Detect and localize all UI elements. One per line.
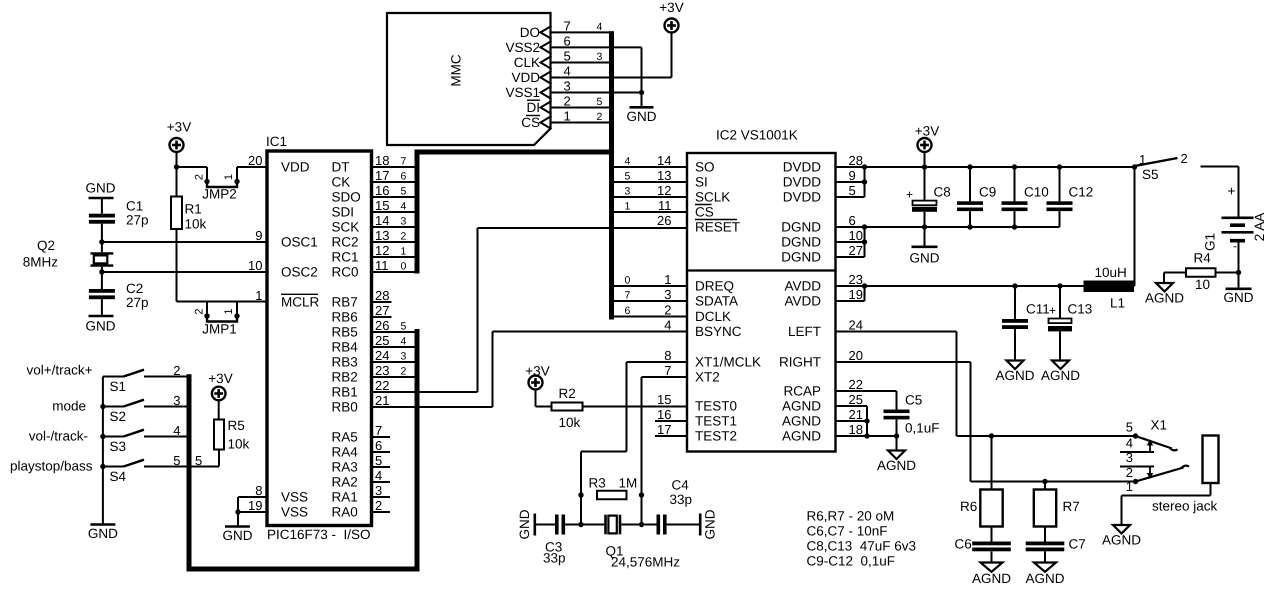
- svg-text:RC1: RC1: [332, 250, 359, 265]
- svg-text:23: 23: [375, 363, 389, 378]
- svg-text:AGND: AGND: [995, 368, 1034, 383]
- svg-text:25: 25: [375, 333, 389, 348]
- svg-text:14: 14: [657, 153, 671, 168]
- svg-text:SDI: SDI: [332, 205, 355, 220]
- svg-text:RA1: RA1: [332, 490, 358, 505]
- svg-text:VDD: VDD: [511, 70, 540, 85]
- svg-text:1: 1: [625, 201, 631, 213]
- svg-text:9: 9: [255, 228, 262, 243]
- svg-text:9: 9: [849, 168, 856, 183]
- svg-text:12: 12: [657, 183, 671, 198]
- svg-text:C9: C9: [979, 185, 996, 200]
- svg-text:8: 8: [255, 483, 262, 498]
- svg-text:C7: C7: [1069, 537, 1086, 552]
- svg-text:R5: R5: [228, 418, 245, 433]
- svg-text:5: 5: [1126, 420, 1133, 435]
- svg-text:6: 6: [849, 213, 856, 228]
- svg-text:JMP1: JMP1: [202, 322, 237, 337]
- svg-text:OSC1: OSC1: [281, 235, 318, 250]
- svg-text:5: 5: [375, 453, 382, 468]
- svg-text:GND: GND: [703, 509, 718, 539]
- svg-text:5: 5: [597, 96, 603, 108]
- svg-text:vol-/track-: vol-/track-: [29, 429, 88, 444]
- svg-text:26: 26: [657, 213, 671, 228]
- svg-text:1: 1: [1139, 152, 1146, 167]
- svg-text:AGND: AGND: [782, 414, 821, 429]
- svg-text:1M: 1M: [619, 476, 638, 491]
- svg-text:playstop/bass: playstop/bass: [10, 459, 93, 474]
- svg-text:2: 2: [173, 363, 180, 378]
- svg-text:DCLK: DCLK: [695, 309, 731, 324]
- svg-text:+3V: +3V: [915, 124, 939, 139]
- svg-text:RB4: RB4: [332, 340, 359, 355]
- svg-text:AVDD: AVDD: [784, 294, 821, 309]
- svg-text:8MHz: 8MHz: [23, 255, 59, 270]
- svg-text:R2: R2: [559, 386, 576, 401]
- svg-text:C4: C4: [672, 478, 690, 493]
- svg-text:IC1: IC1: [266, 134, 287, 149]
- svg-text:RA4: RA4: [332, 445, 359, 460]
- svg-text:RA2: RA2: [332, 475, 358, 490]
- svg-text:1: 1: [223, 308, 235, 314]
- svg-text:27p: 27p: [126, 295, 149, 310]
- svg-text:3: 3: [401, 351, 407, 363]
- svg-text:CS: CS: [521, 115, 540, 130]
- svg-text:5: 5: [625, 171, 631, 183]
- svg-text:23: 23: [849, 272, 863, 287]
- svg-text:AGND: AGND: [1025, 571, 1064, 586]
- svg-text:R7: R7: [1063, 499, 1080, 514]
- svg-text:AGND: AGND: [1102, 533, 1141, 548]
- svg-text:28: 28: [375, 288, 389, 303]
- svg-text:VSS1: VSS1: [505, 85, 540, 100]
- svg-text:12: 12: [375, 243, 389, 258]
- svg-text:10k: 10k: [185, 217, 207, 232]
- svg-text:2 AA: 2 AA: [1252, 213, 1267, 242]
- svg-text:Q2: Q2: [37, 238, 55, 253]
- svg-text:GND: GND: [910, 251, 940, 266]
- svg-text:RA3: RA3: [332, 460, 358, 475]
- svg-text:R3: R3: [589, 476, 606, 491]
- svg-text:DVDD: DVDD: [783, 190, 822, 205]
- svg-text:0,1uF: 0,1uF: [905, 421, 940, 436]
- svg-text:3: 3: [597, 51, 603, 63]
- svg-text:RB0: RB0: [332, 400, 358, 415]
- svg-text:IC2 VS1001K: IC2 VS1001K: [716, 128, 798, 143]
- svg-text:JMP2: JMP2: [202, 187, 237, 202]
- svg-text:3: 3: [375, 483, 382, 498]
- svg-text:C6,C7 - 10nF: C6,C7 - 10nF: [807, 524, 888, 539]
- svg-text:SCK: SCK: [332, 220, 360, 235]
- svg-text:-: -: [1233, 239, 1237, 253]
- svg-text:5: 5: [849, 183, 856, 198]
- svg-text:SDATA: SDATA: [695, 294, 738, 309]
- svg-text:24: 24: [849, 317, 863, 332]
- svg-text:DO: DO: [520, 25, 540, 40]
- svg-text:RB7: RB7: [332, 295, 358, 310]
- svg-text:DT: DT: [332, 160, 350, 175]
- svg-text:3: 3: [401, 216, 407, 228]
- svg-text:X1: X1: [1151, 418, 1168, 433]
- svg-text:GND: GND: [88, 526, 118, 541]
- svg-text:5: 5: [173, 453, 180, 468]
- svg-text:4: 4: [375, 468, 382, 483]
- svg-text:DVDD: DVDD: [783, 175, 822, 190]
- svg-text:R6,R7 - 20 oM: R6,R7 - 20 oM: [807, 509, 895, 524]
- svg-text:+3V: +3V: [525, 364, 549, 379]
- svg-text:LEFT: LEFT: [788, 324, 821, 339]
- svg-text:+: +: [906, 188, 913, 202]
- svg-text:4: 4: [173, 423, 180, 438]
- svg-text:+3V: +3V: [167, 120, 191, 135]
- svg-text:SI: SI: [695, 175, 708, 190]
- svg-text:G1: G1: [1203, 233, 1218, 251]
- svg-text:S3: S3: [110, 439, 127, 454]
- svg-text:0: 0: [401, 261, 407, 273]
- svg-text:C6: C6: [955, 537, 972, 552]
- svg-text:XT1/MCLK: XT1/MCLK: [695, 355, 761, 370]
- svg-text:AGND: AGND: [1041, 368, 1080, 383]
- svg-text:5: 5: [564, 49, 571, 64]
- svg-text:TEST1: TEST1: [695, 414, 737, 429]
- svg-text:MCLR: MCLR: [281, 295, 320, 310]
- svg-text:4: 4: [597, 21, 603, 33]
- svg-text:15: 15: [375, 198, 389, 213]
- svg-text:2: 2: [401, 231, 407, 243]
- svg-text:21: 21: [375, 393, 389, 408]
- svg-text:TEST0: TEST0: [695, 399, 737, 414]
- svg-text:24,576MHz: 24,576MHz: [611, 555, 680, 570]
- svg-text:VDD: VDD: [281, 160, 310, 175]
- svg-text:RESET: RESET: [695, 220, 740, 235]
- svg-text:+3V: +3V: [659, 0, 683, 15]
- svg-text:8: 8: [664, 348, 671, 363]
- svg-text:1: 1: [1126, 479, 1133, 494]
- svg-text:RB5: RB5: [332, 325, 358, 340]
- svg-text:4: 4: [401, 201, 407, 213]
- svg-text:6: 6: [625, 305, 631, 317]
- svg-text:24: 24: [375, 348, 389, 363]
- svg-text:14: 14: [375, 213, 389, 228]
- svg-text:20: 20: [849, 348, 863, 363]
- svg-text:RA0: RA0: [332, 505, 358, 520]
- svg-text:2: 2: [664, 302, 671, 317]
- svg-text:GND: GND: [627, 109, 657, 124]
- svg-text:mode: mode: [52, 399, 86, 414]
- svg-text:RC0: RC0: [332, 265, 359, 280]
- svg-text:VSS2: VSS2: [505, 40, 540, 55]
- svg-text:GND: GND: [1224, 290, 1254, 305]
- svg-text:1: 1: [401, 246, 407, 258]
- svg-text:2: 2: [1181, 151, 1188, 166]
- svg-text:C11: C11: [1026, 302, 1050, 317]
- svg-text:20: 20: [248, 153, 262, 168]
- svg-text:S4: S4: [110, 469, 127, 484]
- svg-text:DGND: DGND: [781, 220, 821, 235]
- svg-text:7: 7: [625, 290, 631, 302]
- svg-text:7: 7: [564, 19, 571, 34]
- svg-text:DREQ: DREQ: [695, 279, 734, 294]
- svg-text:SO: SO: [695, 160, 715, 175]
- svg-text:33p: 33p: [543, 551, 566, 566]
- svg-text:OSC2: OSC2: [281, 265, 318, 280]
- svg-text:AGND: AGND: [1145, 291, 1184, 306]
- svg-text:C9-C12 0,1uF: C9-C12 0,1uF: [807, 554, 896, 569]
- svg-text:18: 18: [849, 422, 863, 437]
- svg-text:MMC: MMC: [449, 54, 464, 86]
- svg-text:13: 13: [375, 228, 389, 243]
- svg-text:S5: S5: [1142, 167, 1159, 182]
- svg-text:0: 0: [625, 275, 631, 287]
- svg-text:10uH: 10uH: [1095, 265, 1127, 280]
- svg-text:22: 22: [375, 378, 389, 393]
- svg-text:3: 3: [625, 186, 631, 198]
- svg-text:C13: C13: [1068, 302, 1093, 317]
- svg-text:19: 19: [849, 287, 863, 302]
- svg-text:RC2: RC2: [332, 235, 359, 250]
- svg-text:1: 1: [564, 109, 571, 124]
- svg-text:C8: C8: [934, 185, 951, 200]
- svg-text:GND: GND: [223, 528, 253, 543]
- svg-text:6: 6: [564, 34, 571, 49]
- svg-text:DVDD: DVDD: [783, 160, 822, 175]
- svg-text:PIC16F73 - I/SO: PIC16F73 - I/SO: [267, 527, 371, 542]
- svg-text:AGND: AGND: [782, 399, 821, 414]
- svg-text:3: 3: [664, 287, 671, 302]
- svg-text:DGND: DGND: [781, 235, 821, 250]
- svg-text:+3V: +3V: [208, 371, 232, 386]
- svg-text:6: 6: [375, 438, 382, 453]
- svg-text:21: 21: [849, 407, 863, 422]
- svg-text:33p: 33p: [670, 492, 693, 507]
- svg-text:CK: CK: [332, 175, 351, 190]
- svg-text:C2: C2: [126, 281, 143, 296]
- svg-text:11: 11: [375, 258, 389, 273]
- svg-text:2: 2: [194, 174, 206, 180]
- svg-text:L1: L1: [1110, 296, 1125, 311]
- svg-text:R6: R6: [960, 499, 977, 514]
- svg-text:16: 16: [375, 183, 389, 198]
- svg-text:11: 11: [658, 198, 672, 213]
- svg-text:16: 16: [657, 407, 671, 422]
- svg-text:stereo jack: stereo jack: [1152, 499, 1218, 514]
- svg-text:4: 4: [664, 317, 671, 332]
- svg-text:RB1: RB1: [332, 385, 358, 400]
- svg-text:S2: S2: [110, 409, 127, 424]
- svg-text:2: 2: [375, 498, 382, 513]
- svg-text:C5: C5: [905, 393, 922, 408]
- svg-text:CS: CS: [695, 205, 714, 220]
- svg-text:RB6: RB6: [332, 310, 358, 325]
- svg-text:10: 10: [1195, 277, 1210, 292]
- svg-text:RIGHT: RIGHT: [779, 355, 821, 370]
- svg-text:S1: S1: [110, 379, 127, 394]
- svg-text:10: 10: [248, 258, 262, 273]
- svg-text:25: 25: [849, 392, 863, 407]
- svg-text:RB2: RB2: [332, 370, 358, 385]
- svg-text:3: 3: [173, 393, 180, 408]
- svg-text:18: 18: [375, 153, 389, 168]
- svg-text:C10: C10: [1024, 185, 1049, 200]
- svg-text:R4: R4: [1194, 251, 1212, 266]
- svg-text:5: 5: [195, 453, 202, 468]
- svg-text:vol+/track+: vol+/track+: [26, 363, 92, 378]
- svg-text:2: 2: [194, 308, 206, 314]
- svg-text:C12: C12: [1069, 185, 1094, 200]
- svg-text:10: 10: [849, 228, 863, 243]
- svg-text:RCAP: RCAP: [783, 384, 821, 399]
- svg-text:10k: 10k: [228, 437, 250, 452]
- svg-text:GND: GND: [517, 509, 532, 539]
- svg-text:27: 27: [375, 303, 389, 318]
- svg-text:XT2: XT2: [695, 370, 720, 385]
- svg-text:GND: GND: [86, 181, 116, 196]
- svg-text:VSS: VSS: [281, 490, 308, 505]
- svg-text:28: 28: [849, 153, 863, 168]
- svg-text:AGND: AGND: [972, 571, 1011, 586]
- svg-text:1: 1: [664, 272, 671, 287]
- svg-text:15: 15: [657, 392, 671, 407]
- svg-text:GND: GND: [86, 319, 116, 334]
- svg-text:10k: 10k: [559, 415, 581, 430]
- svg-text:TEST2: TEST2: [695, 429, 737, 444]
- svg-text:DI: DI: [527, 100, 541, 115]
- svg-text:3: 3: [564, 79, 571, 94]
- svg-text:27p: 27p: [126, 213, 149, 228]
- svg-text:4: 4: [401, 336, 407, 348]
- svg-text:17: 17: [375, 168, 389, 183]
- svg-text:7: 7: [401, 156, 407, 168]
- svg-text:19: 19: [248, 498, 262, 513]
- svg-text:6: 6: [401, 171, 407, 183]
- svg-text:1: 1: [223, 174, 235, 180]
- svg-text:4: 4: [1126, 436, 1133, 451]
- svg-text:AGND: AGND: [877, 458, 916, 473]
- svg-text:R1: R1: [185, 202, 202, 217]
- svg-text:BSYNC: BSYNC: [695, 324, 742, 339]
- svg-text:4: 4: [625, 156, 631, 168]
- svg-text:SCLK: SCLK: [695, 190, 730, 205]
- svg-text:RB3: RB3: [332, 355, 358, 370]
- svg-text:CLK: CLK: [514, 55, 540, 70]
- svg-text:17: 17: [657, 422, 671, 437]
- svg-text:VSS: VSS: [281, 505, 308, 520]
- svg-text:+: +: [1049, 304, 1056, 318]
- svg-text:13: 13: [657, 168, 671, 183]
- svg-text:C1: C1: [126, 199, 143, 214]
- svg-text:22: 22: [849, 377, 863, 392]
- svg-text:2: 2: [564, 94, 571, 109]
- svg-text:2: 2: [401, 366, 407, 378]
- svg-text:26: 26: [375, 318, 389, 333]
- svg-text:4: 4: [564, 64, 571, 79]
- svg-text:5: 5: [401, 321, 407, 333]
- svg-text:7: 7: [664, 363, 671, 378]
- svg-text:AGND: AGND: [782, 429, 821, 444]
- svg-text:DGND: DGND: [781, 250, 821, 265]
- svg-text:AVDD: AVDD: [784, 279, 821, 294]
- svg-text:7: 7: [375, 423, 382, 438]
- svg-text:+: +: [1228, 184, 1236, 199]
- svg-text:SDO: SDO: [332, 190, 361, 205]
- svg-text:27: 27: [849, 243, 863, 258]
- svg-text:C8,C13 47uF 6v3: C8,C13 47uF 6v3: [807, 539, 917, 554]
- svg-text:RA5: RA5: [332, 430, 358, 445]
- svg-text:5: 5: [401, 186, 407, 198]
- svg-text:2: 2: [597, 111, 603, 123]
